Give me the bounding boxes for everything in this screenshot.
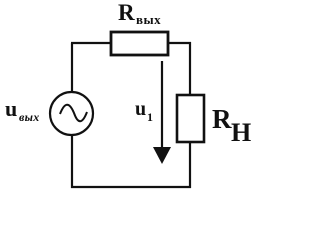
arrow u1 line: [161, 61, 163, 152]
wire top horizontal left (corner to R_vyh): [71, 42, 112, 44]
svg-text:1: 1: [147, 110, 153, 124]
wire right vertical lower (R_H to bottom corner): [189, 142, 191, 188]
svg-text:R: R: [212, 104, 232, 134]
resistor R_vyh body: [111, 32, 168, 55]
wire bottom horizontal: [71, 186, 191, 188]
svg-text:u: u: [135, 98, 146, 120]
wire top horizontal right (R_vyh to right corner): [168, 42, 191, 44]
svg-text:R: R: [118, 0, 135, 25]
svg-text:Н: Н: [231, 118, 251, 147]
wire top-left vertical (source to top corner): [71, 43, 73, 93]
wire left vertical lower (source bottom to bottom corner): [71, 134, 73, 188]
source sine wave: [60, 105, 87, 122]
wire right vertical upper (corner to R_H): [189, 42, 191, 96]
source U_vyh circle: [50, 92, 93, 135]
svg-text:вых: вых: [19, 110, 40, 124]
svg-text:вых: вых: [136, 12, 161, 27]
arrow u1 head: [153, 147, 171, 164]
svg-text:u: u: [5, 96, 17, 121]
resistor R_H body: [177, 95, 204, 142]
